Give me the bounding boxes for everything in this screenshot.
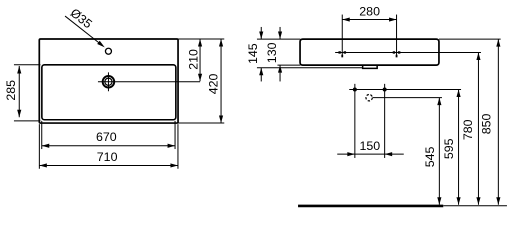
- dimension 280 extension lines: [342, 15, 396, 57]
- leader arrow to faucet hole: [65, 16, 105, 47]
- dimension 210 line with arrows: [198, 39, 202, 81]
- svg-text:285: 285: [4, 80, 18, 101]
- extension line 145: [257, 67, 363, 69]
- faucet hole centre mark left: [338, 51, 346, 57]
- dimension 285 extension lines: [14, 65, 41, 121]
- drain outlet dashed circle: [366, 94, 372, 100]
- svg-text:780: 780: [461, 119, 475, 140]
- faucet hole circle: [105, 48, 111, 54]
- dimension 850 line with arrows: [496, 39, 500, 205]
- dimension 420 line with arrows: [219, 39, 223, 123]
- svg-text:545: 545: [423, 147, 437, 168]
- basin slab outline: [300, 39, 439, 65]
- bolt vertical extension left: [354, 84, 356, 158]
- bottom extension line right of left view: [178, 122, 224, 124]
- bolt line / extension for 595: [349, 89, 461, 91]
- svg-text:130: 130: [265, 42, 279, 63]
- svg-text:150: 150: [360, 139, 381, 153]
- fixing bolt dot right: [383, 88, 387, 92]
- top extension line right of left view: [178, 38, 224, 40]
- faucet centerline / extension for 780: [335, 51, 481, 53]
- dimension 670 line with arrows: [42, 144, 175, 148]
- extension lines below left view: [39, 121, 178, 169]
- extension line 130: [277, 64, 300, 66]
- bolt vertical extension right: [384, 84, 386, 158]
- floor line thick: [298, 205, 443, 208]
- dimension 280 line with arrows: [342, 17, 396, 21]
- dimension 545 line with arrows: [437, 98, 441, 205]
- drain boss step under slab: [363, 65, 378, 68]
- dimension 130 arrows: [278, 27, 282, 81]
- svg-text:Ø35: Ø35: [68, 6, 95, 32]
- drain centerline / extension for 210: [98, 81, 200, 83]
- svg-text:850: 850: [479, 114, 493, 135]
- svg-text:280: 280: [359, 5, 380, 19]
- floor line thin: [443, 205, 507, 207]
- faucet hole centre mark right: [393, 51, 401, 57]
- outer basin outline 710 x 420: [39, 39, 178, 123]
- svg-text:210: 210: [186, 49, 200, 70]
- svg-text:670: 670: [96, 130, 117, 144]
- dimension 710 line with arrows: [39, 163, 178, 167]
- fixing bolt dot left: [353, 88, 357, 92]
- drain line / extension for 545: [373, 97, 442, 99]
- inner bowl outline 670 x 285: [42, 65, 176, 120]
- dimension 145 arrows: [259, 27, 263, 81]
- dimension 150 line with outside arrows: [337, 152, 404, 156]
- slab top extension line right: [439, 38, 501, 40]
- slab top extension line left: [257, 38, 301, 40]
- svg-text:145: 145: [246, 43, 260, 64]
- svg-text:710: 710: [97, 150, 118, 164]
- drain symbol: [103, 72, 115, 91]
- dimension 285 line with arrows: [17, 66, 21, 117]
- dimension 595 line with arrows: [456, 90, 460, 205]
- svg-text:420: 420: [206, 74, 220, 95]
- svg-text:595: 595: [442, 138, 456, 159]
- dimension 780 line with arrows: [476, 52, 480, 204]
